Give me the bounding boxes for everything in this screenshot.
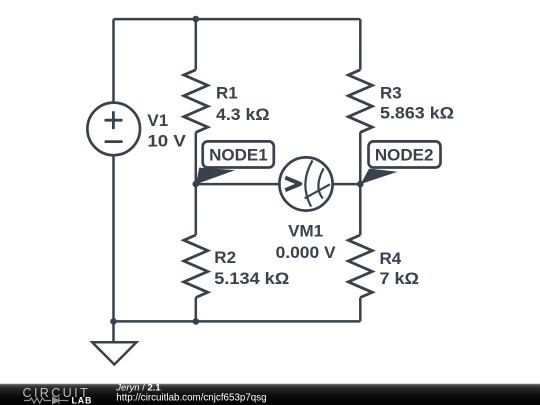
resistor R2 (184, 235, 208, 298)
wire ground lead (112, 321, 115, 342)
svg-text:4.3 kΩ: 4.3 kΩ (216, 105, 270, 124)
svg-text:0.000 V: 0.000 V (276, 243, 337, 262)
resistor R4 (348, 235, 372, 298)
wire left rail upper (112, 19, 115, 103)
svg-text:10 V: 10 V (147, 131, 186, 150)
footer bar (0, 384, 540, 405)
wire junction dot at R2 bottom rail (193, 318, 200, 325)
node NODE2 callout (361, 141, 441, 184)
svg-text:LAB: LAB (72, 396, 93, 405)
svg-text:R1: R1 (216, 83, 238, 102)
wire bottom rail (114, 320, 361, 323)
svg-text:http://circuitlab.com/cnjcf653: http://circuitlab.com/cnjcf653p7qsg (116, 392, 266, 403)
wire left rail lower (112, 155, 115, 321)
node NODE2 junction dot (357, 181, 364, 188)
wire right rail bottom (359, 298, 362, 322)
svg-text:R4: R4 (380, 249, 402, 268)
svg-text:5.134 kΩ: 5.134 kΩ (214, 269, 289, 288)
ground (92, 342, 136, 364)
svg-text:7 kΩ: 7 kΩ (380, 269, 420, 288)
svg-text:VM1: VM1 (288, 222, 323, 241)
wire right rail mid (359, 132, 362, 235)
wire right rail top (359, 19, 362, 70)
resistor R3 (348, 70, 372, 133)
wire voltmeter left (196, 183, 280, 186)
wire middle branch mid (195, 132, 198, 235)
voltage source V1 (87, 103, 140, 156)
voltmeter VM1 (279, 157, 332, 210)
svg-text:NODE2: NODE2 (375, 145, 434, 164)
resistor R1 (184, 70, 208, 133)
svg-text:R2: R2 (214, 248, 236, 267)
svg-text:R3: R3 (380, 83, 402, 102)
wire voltmeter right (332, 183, 360, 186)
wire junction dot at R1 top rail (193, 16, 200, 23)
svg-text:5.863 kΩ: 5.863 kΩ (380, 104, 454, 123)
wire middle branch bottom (195, 298, 198, 322)
wire middle branch top (195, 19, 198, 70)
wire junction dot at ground rail (110, 318, 117, 325)
node NODE1 callout (196, 141, 274, 184)
wire top rail (114, 18, 361, 21)
node NODE1 junction dot (193, 181, 200, 188)
svg-text:NODE1: NODE1 (209, 145, 268, 164)
CircuitLab logo squiggle (24, 397, 69, 404)
svg-text:V1: V1 (147, 111, 168, 130)
